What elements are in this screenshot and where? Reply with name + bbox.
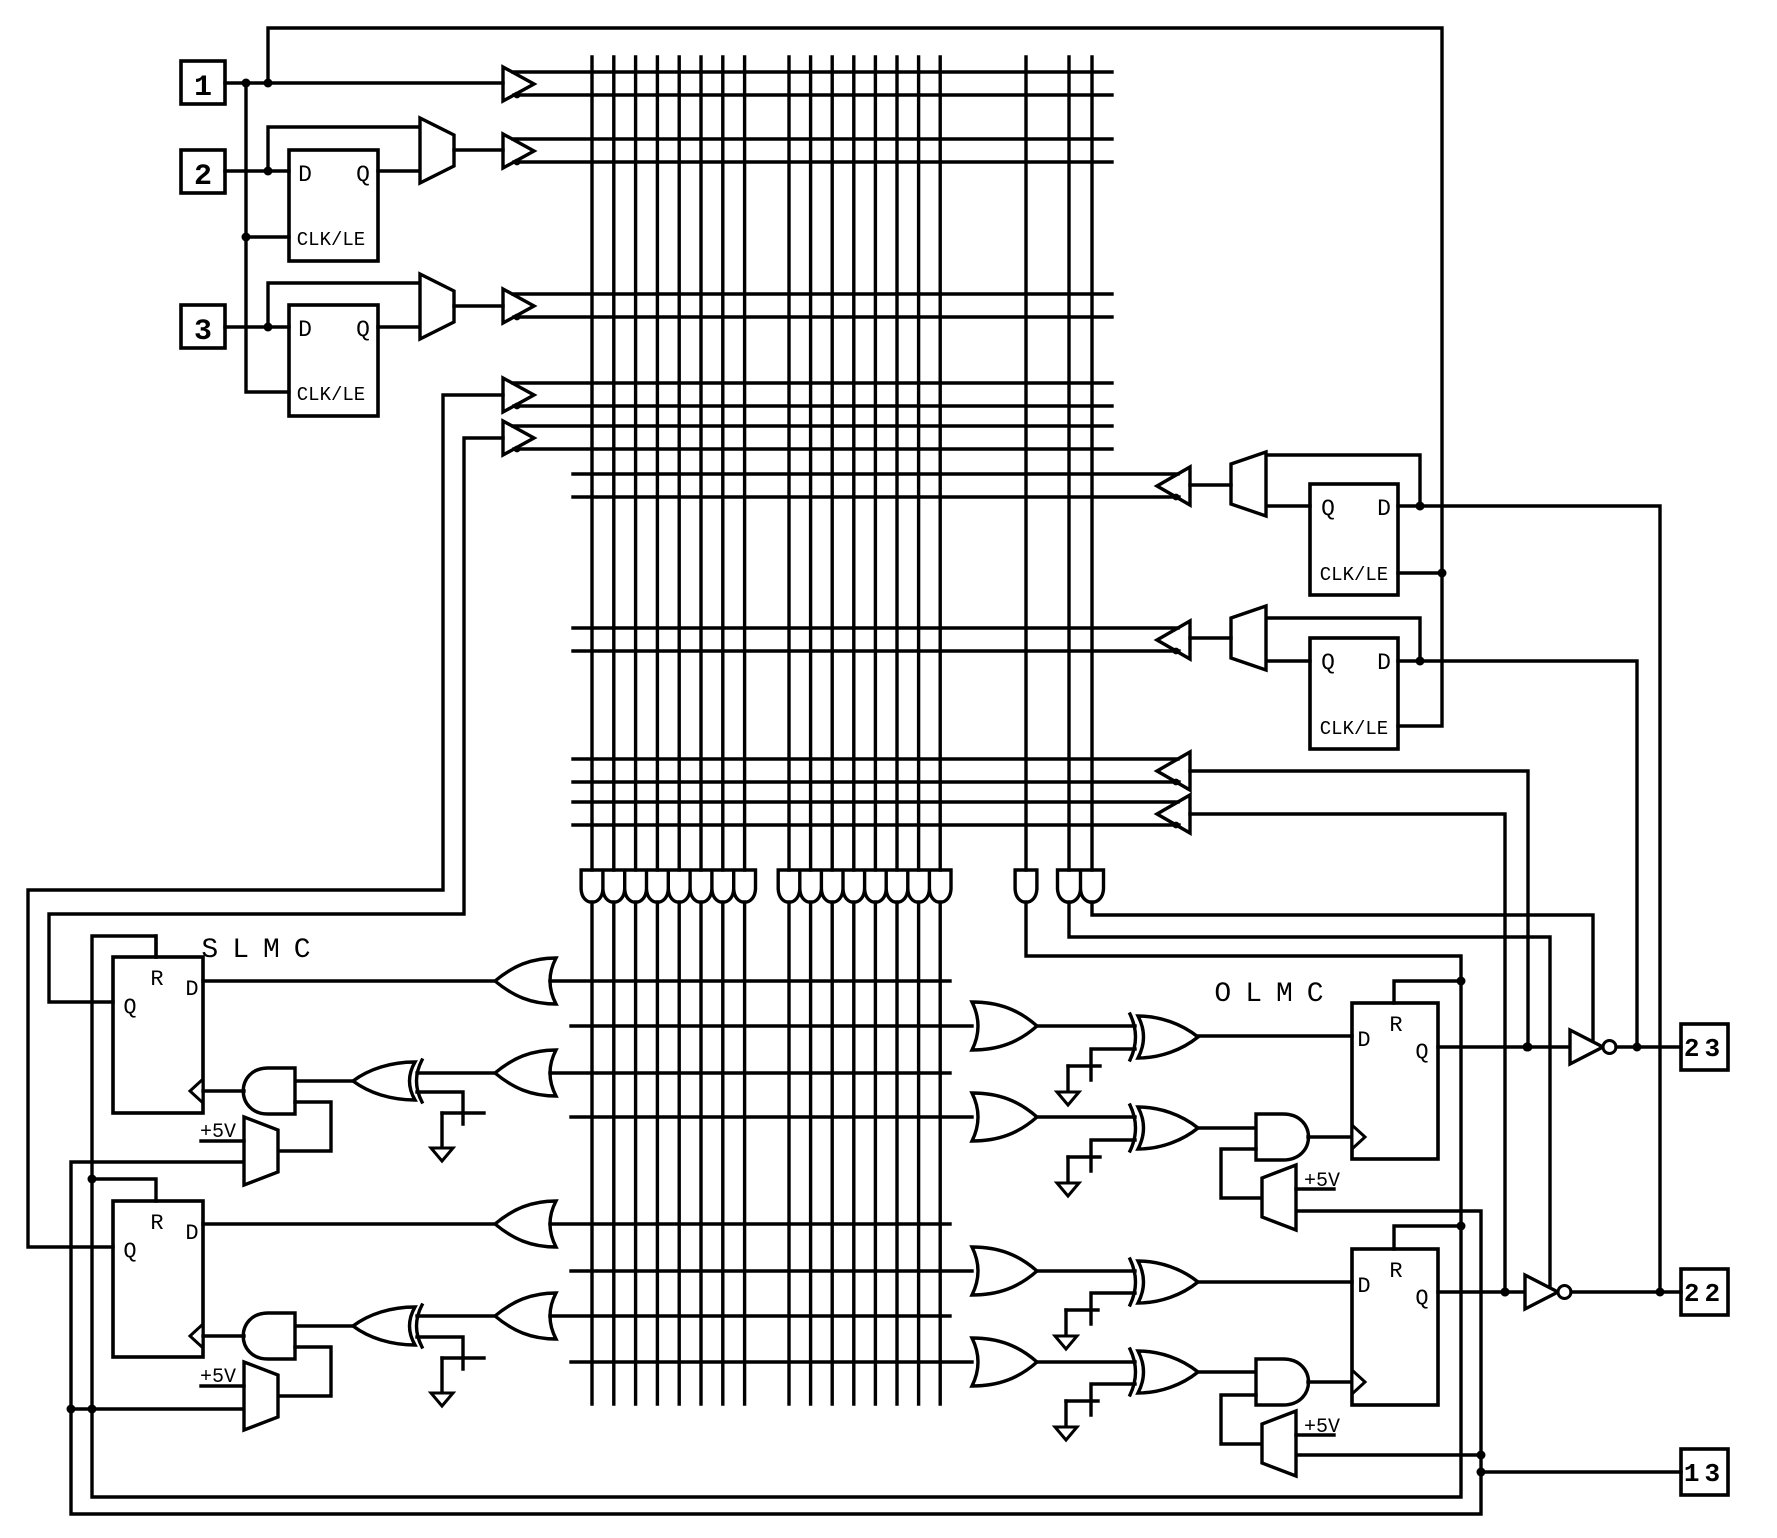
pin 3 — [181, 305, 225, 348]
inverter V22 — [1525, 1275, 1558, 1309]
node latch R2 D vertical at pin23 line — [1633, 1043, 1642, 1052]
svg-text:D: D — [1357, 1274, 1370, 1299]
wire +5V to mux M6 — [1296, 1433, 1334, 1436]
wire buffer F3 input from pin23 net — [1190, 771, 1528, 1047]
wire product column P3 — [634, 57, 637, 870]
ground under X1 — [431, 1148, 453, 1161]
svg-text:D: D — [298, 162, 312, 188]
node pin13 net at mux M6 input — [1477, 1451, 1486, 1460]
or-gate G3 (SLMC) — [495, 1201, 556, 1247]
wire F2 true row — [573, 626, 1178, 629]
ground under X2 — [431, 1393, 453, 1406]
svg-text:OLMC: OLMC — [1214, 979, 1337, 1010]
wire A2 output to SF2 clock — [203, 1334, 244, 1337]
wire product column P18 (enable term) — [1067, 57, 1070, 870]
latch R1 — [1310, 484, 1398, 595]
node R net crossing pin13 branch — [88, 1405, 97, 1414]
wire B1 complement row — [514, 93, 1112, 96]
wire F2 complement row — [573, 649, 1179, 652]
wire +5V to mux M7 — [201, 1139, 244, 1142]
node F3 net at pin23 line — [1524, 1043, 1533, 1052]
wire buffer B5 input from SLMC FF1 Q — [49, 438, 503, 1002]
pin 2 — [181, 150, 225, 193]
feedback buffer F4 — [1157, 795, 1190, 833]
wire F4 complement row — [573, 823, 1179, 826]
pin 23 — [1681, 1024, 1728, 1070]
svg-text:Q: Q — [356, 162, 370, 188]
node B4 complement tap — [514, 403, 521, 410]
wire F1 true row — [573, 472, 1178, 475]
wire SF2 R loop — [92, 1179, 156, 1201]
wire GB input row — [571, 1115, 972, 1118]
programmable cell under XC — [1091, 1293, 1135, 1324]
input latch L1 — [289, 150, 378, 261]
node R net at OLMC FF2 — [1457, 1222, 1466, 1231]
svg-text:D: D — [185, 977, 198, 1002]
wire mux M6 lower input — [1296, 1453, 1481, 1456]
wire buffer F4 input from pin22 net — [1190, 814, 1505, 1292]
svg-text:D: D — [1377, 496, 1391, 522]
wire product column P4 — [656, 57, 659, 870]
wire product column P2 — [612, 57, 615, 870]
wire product column P15 — [917, 57, 920, 870]
svg-text:22: 22 — [1684, 1279, 1725, 1309]
wire GB output to XOR XB — [1037, 1115, 1135, 1118]
wire SF1 R loop — [154, 936, 157, 957]
wire F1 complement row — [573, 495, 1179, 498]
wire product column P9 — [787, 57, 790, 870]
input latch L2 — [289, 305, 378, 416]
wire product column P11 — [831, 57, 834, 870]
node B1 complement tap — [514, 92, 521, 99]
wire enable term to inverter V22 — [1069, 902, 1550, 1287]
programmable cell under XB — [1091, 1140, 1135, 1171]
wire GA output to XOR XA — [1037, 1024, 1135, 1027]
svg-text:CLK/LE: CLK/LE — [297, 229, 365, 251]
wire SF1 D from OR G1 — [203, 979, 496, 982]
node R net at SLMC FF2 — [88, 1175, 97, 1184]
wire V22 to pin 22 — [1571, 1290, 1681, 1293]
latch R2 — [1310, 638, 1398, 749]
node pin13 net SLMC branch — [67, 1405, 76, 1414]
mux M7 (SLMC upper) — [244, 1117, 278, 1185]
wire F3 complement row — [573, 780, 1179, 783]
node pin22 feedback tap — [1501, 1288, 1510, 1297]
wire G2 input row — [550, 1071, 950, 1074]
wire F3 true row — [573, 757, 1178, 760]
wire product column P5 — [678, 57, 681, 870]
wire B5 complement row — [514, 447, 1112, 450]
wire product column P8 — [743, 57, 746, 870]
wire X1 output to AND A1 — [295, 1079, 353, 1082]
wire product column P10 — [809, 57, 812, 870]
wire latch R2 Q to mux M4 — [1266, 659, 1310, 662]
mux M5 (OLMC upper) — [1262, 1165, 1296, 1230]
wire +5V to mux M8 — [201, 1384, 244, 1387]
svg-text:R: R — [150, 967, 163, 992]
and-gate A4 (OLMC) — [1256, 1359, 1309, 1405]
inverter V23 — [1570, 1030, 1603, 1064]
flip-flop SF2 (SLMC lower) — [113, 1201, 203, 1357]
xor-gate XD (OLMC) — [1138, 1351, 1198, 1393]
wire clock stub to latch L1 CLK/LE — [246, 235, 289, 238]
input buffer B5 — [503, 421, 534, 455]
wire G1 input row — [550, 979, 950, 982]
wire B2 complement row — [514, 160, 1112, 163]
flip-flop SF1 (SLMC upper) — [113, 957, 203, 1113]
node clock at latch R1 — [1438, 569, 1447, 578]
programmable cell under XA — [1091, 1049, 1135, 1080]
wire pin2 bypass tap to mux M1 — [268, 127, 420, 171]
xor-gate X1 (SLMC) — [353, 1062, 415, 1100]
wire V23 to pin 23 — [1616, 1045, 1681, 1048]
input buffer B2 — [503, 134, 534, 168]
wire G4 output to XOR X2 — [417, 1314, 495, 1317]
wire product column P16 — [939, 57, 942, 870]
mux M2 — [420, 274, 454, 339]
wire A3 lower input loop from mux M5 — [1221, 1149, 1262, 1198]
input buffer B4 — [503, 378, 534, 412]
wire pin2 to latch L1 D — [225, 169, 289, 172]
wire latch R2 D to pin23 net — [1398, 661, 1637, 1047]
input buffer B1 — [503, 67, 534, 101]
node B3 complement tap — [514, 314, 521, 321]
svg-text:D: D — [1357, 1028, 1370, 1053]
wire enable term to inverter V23 — [1092, 902, 1593, 1041]
wire B4 complement row — [514, 404, 1112, 407]
wire latch L2 Q to mux M2 — [378, 325, 420, 328]
AND gate group middle (8 product terms) — [778, 870, 951, 902]
wire A1 lower input loop from mux M7 — [278, 1102, 331, 1151]
svg-text:R: R — [1389, 1013, 1402, 1038]
pin 13 — [1681, 1449, 1728, 1495]
node B5 complement tap — [514, 446, 521, 453]
xor-gate XB (OLMC) — [1138, 1107, 1198, 1149]
wire buffer B4 input from SLMC FF2 Q — [28, 395, 503, 1247]
wire product column P6 — [699, 57, 702, 870]
svg-text:13: 13 — [1684, 1459, 1725, 1489]
wire pin3 bypass tap to mux M2 — [268, 283, 420, 327]
programmable cell under X2 — [417, 1337, 463, 1369]
svg-text:CLK/LE: CLK/LE — [1320, 564, 1388, 586]
wire mux M3 to buffer F1 — [1190, 483, 1231, 486]
wire GD input row — [571, 1360, 972, 1363]
and-gate A1 (SLMC) — [243, 1068, 295, 1114]
wire product column P17 (reset term) — [1024, 57, 1027, 870]
svg-text:SLMC: SLMC — [201, 935, 324, 966]
wire mux M4 upper input tap — [1266, 618, 1420, 661]
svg-text:2: 2 — [194, 160, 212, 194]
node latch R1 D vertical at pin22 line — [1656, 1288, 1665, 1297]
wire B3 complement row — [514, 315, 1112, 318]
wire A3 output to OF1 clock — [1308, 1135, 1352, 1138]
node latch R2 D tap — [1416, 657, 1425, 666]
wire latch R1 D to pin22 net — [1398, 506, 1660, 1292]
feedback buffer F1 — [1157, 467, 1190, 505]
wire A4 lower input loop from mux M6 — [1221, 1395, 1262, 1444]
wire XA output to OF1 D — [1198, 1034, 1352, 1037]
node F1 complement tap — [1173, 494, 1180, 501]
programmable cell under XD — [1091, 1384, 1135, 1415]
svg-text:23: 23 — [1684, 1034, 1725, 1064]
feedback buffer F2 — [1157, 621, 1190, 659]
wire product column P14 — [895, 57, 898, 870]
svg-text:1: 1 — [194, 71, 212, 105]
wire OF2 Q to inverter V22 — [1438, 1290, 1525, 1293]
svg-text:Q: Q — [123, 995, 136, 1020]
wire pin13 branch to SLMC mux M8 — [71, 1407, 244, 1410]
svg-text:R: R — [150, 1211, 163, 1236]
svg-text:Q: Q — [1321, 650, 1335, 676]
clock input SF1 — [190, 1079, 203, 1103]
svg-text:Q: Q — [1415, 1286, 1428, 1311]
ground under XB — [1057, 1183, 1079, 1196]
wire pin13 net (bottom frame to OLMC muxes and SLMC muxes) — [71, 1162, 1481, 1514]
wire B1 true row — [513, 70, 1112, 73]
mux M4 — [1231, 606, 1266, 670]
wire OF1 Q to inverter V23 — [1438, 1045, 1570, 1048]
wire OF2 R loop — [1394, 1226, 1461, 1249]
node F3 complement tap — [1173, 779, 1180, 786]
wire mux M3 upper input tap — [1266, 455, 1420, 506]
wire B4 true row — [513, 381, 1112, 384]
wire pin1 to input buffer B1 — [225, 81, 503, 84]
ground under XC — [1055, 1336, 1077, 1349]
ground under XA — [1057, 1092, 1079, 1105]
wire GA input row — [571, 1024, 972, 1027]
wire B5 true row — [513, 424, 1112, 427]
xor-gate XC (OLMC) — [1138, 1261, 1198, 1303]
AND gate single (reset product term) — [1015, 870, 1037, 902]
mux M1 — [420, 118, 454, 183]
wire +5V to mux M5 — [1296, 1187, 1334, 1190]
svg-text:CLK/LE: CLK/LE — [1320, 718, 1388, 740]
and-gate A2 (SLMC) — [243, 1313, 295, 1359]
node pin3 tap — [264, 323, 273, 332]
mux M6 (OLMC lower) — [1262, 1411, 1296, 1476]
wire XD output to AND A4 — [1198, 1370, 1256, 1373]
node pin13 net at pin stub — [1477, 1468, 1486, 1477]
wire X2 output to AND A2 — [295, 1324, 353, 1327]
or-gate G1 (SLMC) — [495, 958, 556, 1004]
svg-text:Q: Q — [356, 317, 370, 343]
mux M8 (SLMC lower) — [244, 1362, 278, 1430]
wire A1 output to SF1 clock — [203, 1089, 244, 1092]
svg-text:CLK/LE: CLK/LE — [297, 384, 365, 406]
feedback buffer F3 — [1157, 752, 1190, 790]
input buffer B3 — [503, 289, 534, 323]
flip-flop OF2 (OLMC lower) — [1352, 1249, 1438, 1405]
xor-gate X2 (SLMC) — [353, 1307, 415, 1345]
wire G2 output to XOR X1 — [417, 1071, 495, 1074]
wire latch R1 CLK/LE stub — [1398, 571, 1442, 574]
AND gate pair (output enable terms) — [1058, 870, 1104, 902]
node F4 complement tap — [1173, 822, 1180, 829]
svg-text:Q: Q — [1415, 1040, 1428, 1065]
clock input OF2 — [1352, 1370, 1365, 1394]
wire pin3 to latch L2 D — [225, 325, 289, 328]
svg-text:R: R — [1389, 1259, 1402, 1284]
wire latch L1 Q to mux M1 — [378, 169, 420, 172]
node pin2 tap — [264, 167, 273, 176]
node R net at OLMC FF1 — [1457, 977, 1466, 986]
wire B3 true row — [513, 292, 1112, 295]
or-gate G4 (SLMC) — [495, 1293, 556, 1339]
wire G4 input row — [550, 1314, 950, 1317]
wire GC input row — [571, 1269, 972, 1272]
node pin23 feedback tap — [1523, 1043, 1532, 1052]
node F4 net at pin22 line — [1501, 1288, 1510, 1297]
ground under XD — [1055, 1427, 1077, 1440]
node junction pin1/feedback-frame — [264, 79, 273, 88]
svg-text:3: 3 — [194, 315, 212, 349]
svg-text:D: D — [1377, 650, 1391, 676]
node F2 complement tap — [1173, 648, 1180, 655]
wire product column P1 — [590, 57, 593, 870]
mux M3 — [1231, 452, 1266, 516]
node clock at latch L1 — [242, 233, 251, 242]
wire XC output to OF2 D — [1198, 1280, 1352, 1283]
node junction pin1/clock — [242, 79, 251, 88]
and-gate A3 (OLMC) — [1256, 1114, 1309, 1160]
wire SF2 D from OR G3 — [203, 1222, 496, 1225]
wire mux M4 to buffer F2 — [1190, 636, 1231, 639]
node B2 complement tap — [514, 159, 521, 166]
wire GD output to XOR XD — [1037, 1360, 1135, 1363]
wire clock net vertical to latches L1 L2 — [246, 83, 289, 392]
node latch R1 D tap — [1416, 502, 1425, 511]
wire A4 output to OF2 clock — [1308, 1380, 1352, 1383]
wire pin 13 stub — [1481, 1470, 1681, 1473]
clock input OF1 — [1352, 1125, 1365, 1149]
wire product column P19 (enable term) — [1090, 57, 1093, 870]
programmable cell under X1 — [417, 1092, 463, 1124]
wire A2 lower input loop from mux M8 — [278, 1347, 331, 1396]
wire G3 input row — [550, 1222, 950, 1225]
wire product column P13 — [874, 57, 877, 870]
wire top frame clock net to right latches R1 R2 — [268, 28, 1442, 726]
wire reset product term net (common R) — [92, 902, 1461, 1497]
svg-text:Q: Q — [1321, 496, 1335, 522]
wire product column P7 — [721, 57, 724, 870]
wire product column P12 — [852, 57, 855, 870]
svg-text:Q: Q — [123, 1239, 136, 1264]
svg-text:D: D — [298, 317, 312, 343]
wire mux M2 to buffer B3 — [454, 304, 503, 307]
or-gate G2 (SLMC) — [495, 1050, 556, 1096]
AND gate group left (8 product terms) — [581, 870, 755, 902]
xor-gate XA (OLMC) — [1138, 1016, 1198, 1058]
pin 22 — [1681, 1269, 1728, 1315]
flip-flop OF1 (OLMC upper) — [1352, 1003, 1438, 1159]
wire GC output to XOR XC — [1037, 1269, 1135, 1272]
wire mux M1 to buffer B2 — [454, 148, 503, 151]
wire latch R1 Q to mux M3 — [1266, 504, 1310, 507]
wire B2 true row — [513, 137, 1112, 140]
wire F4 true row — [573, 800, 1178, 803]
clock input SF2 — [190, 1324, 203, 1348]
wire OF1 R loop — [1394, 981, 1461, 1003]
wire XB output to AND A3 — [1198, 1126, 1256, 1129]
pin 1 — [181, 61, 225, 104]
svg-text:D: D — [185, 1221, 198, 1246]
